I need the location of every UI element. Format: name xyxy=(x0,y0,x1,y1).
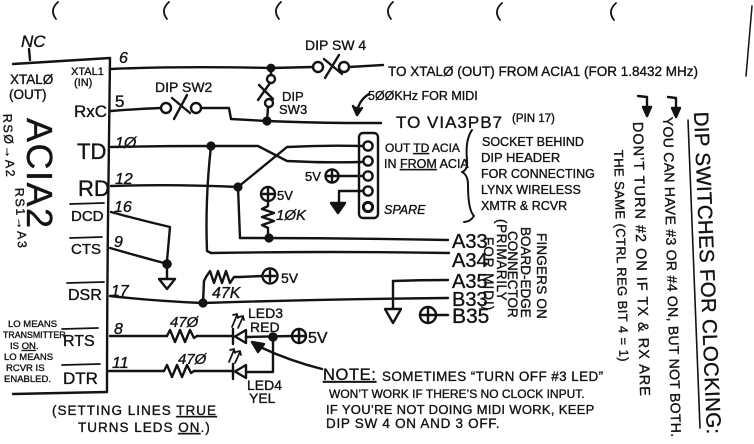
svg-text:RxC: RxC xyxy=(74,102,107,121)
svg-text:RED: RED xyxy=(250,319,280,335)
junction 10K to A33 xyxy=(266,235,273,242)
LED4 YEL xyxy=(232,364,234,379)
svg-text:TO XTALØ (OUT) FROM ACIA1 (FOR: TO XTALØ (OUT) FROM ACIA1 (FOR 1.8432 MH… xyxy=(388,64,698,79)
svg-text:RD: RD xyxy=(78,176,110,201)
svg-text:IF YOU’RE NOT DOING MIDI WORK,: IF YOU’RE NOT DOING MIDI WORK, KEEP xyxy=(326,402,595,417)
wire J1 pin4 to ground arrow xyxy=(339,191,363,204)
wire RD to header pin1 (crosses TD wire) xyxy=(238,146,362,187)
svg-text:XTALØ: XTALØ xyxy=(10,72,54,87)
switch DIP SW4 xyxy=(313,62,323,72)
svg-text:DIP HEADER: DIP HEADER xyxy=(481,150,560,165)
svg-text:TRANSMITTER: TRANSMITTER xyxy=(3,330,66,340)
wire SW3 top stub xyxy=(270,71,272,75)
brace socket note xyxy=(462,130,474,222)
svg-text:LO MEANS: LO MEANS xyxy=(8,319,57,330)
wire pin6 to SW4 xyxy=(111,67,313,69)
svg-text:TD: TD xyxy=(77,139,106,164)
svg-text:5V: 5V xyxy=(308,330,328,347)
svg-text:1Ø: 1Ø xyxy=(115,135,138,152)
svg-text:LYNX WIRELESS: LYNX WIRELESS xyxy=(481,183,581,197)
junction SW3 on pin5 net xyxy=(264,118,271,125)
svg-text:5V: 5V xyxy=(281,270,299,286)
svg-text:6: 6 xyxy=(119,50,128,67)
wire pin16 DCD xyxy=(111,212,170,261)
ground arrow (J1 pin4) xyxy=(331,203,345,213)
junction LED net xyxy=(269,333,276,340)
power +5V for 10K pullup xyxy=(261,187,275,201)
wire SW2 to VIA3PB7 xyxy=(201,108,381,123)
wire DSR up to 47K xyxy=(203,281,204,303)
svg-text:5ØØKHz FOR MIDI: 5ØØKHz FOR MIDI xyxy=(368,89,478,103)
J1 pin 1 xyxy=(363,141,372,150)
wire B35 xyxy=(435,314,448,316)
junction on pin6 wire xyxy=(268,65,274,71)
wire A35 down to ground xyxy=(392,281,394,308)
svg-text:DCD: DCD xyxy=(71,208,104,225)
wire NC stub xyxy=(29,49,30,60)
svg-text:SOCKET BEHIND: SOCKET BEHIND xyxy=(482,135,584,149)
wire pin8 RTS xyxy=(110,335,167,337)
wire pin12 RD xyxy=(111,185,238,187)
wire pin17 DSR to B33 xyxy=(110,296,448,303)
svg-text:DSR: DSR xyxy=(68,287,102,304)
note arrow to LED junction xyxy=(260,347,322,369)
svg-text:DTR: DTR xyxy=(63,369,98,388)
svg-text:RTS: RTS xyxy=(63,333,95,350)
svg-text:TURNS LEDS ON.): TURNS LEDS ON.) xyxy=(78,420,211,435)
svg-text:(OUT): (OUT) xyxy=(9,87,47,102)
svg-text:SOMETIMES “TURN OFF #3 LED”: SOMETIMES “TURN OFF #3 LED” xyxy=(382,369,604,384)
svg-text:IS ON.: IS ON. xyxy=(10,341,39,352)
svg-text:CTS: CTS xyxy=(71,241,101,258)
J1 pin 3 xyxy=(363,171,372,180)
ground arrow (DCD/CTS) xyxy=(159,264,175,289)
junction TD xyxy=(208,143,215,150)
IC U1 ACIA2 (box outline: top, right, bottom edges) xyxy=(13,58,110,394)
svg-text:SPARE: SPARE xyxy=(384,203,426,217)
wire A35 xyxy=(393,280,448,281)
svg-text:WON’T WORK IF THERE’S NO CLOCK: WON’T WORK IF THERE’S NO CLOCK INPUT. xyxy=(329,387,585,401)
wire pin10 TD xyxy=(111,146,211,147)
svg-text:47Ø: 47Ø xyxy=(170,314,200,331)
wire to LED3 xyxy=(197,335,232,337)
wire A34 xyxy=(211,252,449,253)
svg-text:XMTR & RCVR: XMTR & RCVR xyxy=(481,199,567,213)
svg-text:1ØK: 1ØK xyxy=(276,207,307,224)
wire TD to header pin2 xyxy=(211,146,362,162)
svg-text:FINGERS ON: FINGERS ON xyxy=(534,233,549,319)
junction CTS/DCD xyxy=(163,260,170,267)
J1 pin 2 xyxy=(363,156,372,165)
wire pin11 DTR xyxy=(108,370,164,372)
connector J1 DIP header xyxy=(359,133,378,218)
svg-text:(SETTING LINES TRUE: (SETTING LINES TRUE xyxy=(52,403,217,418)
power 5V (47K pullup) xyxy=(240,276,262,277)
svg-text:NC: NC xyxy=(21,32,46,51)
svg-text:5V: 5V xyxy=(277,188,293,203)
svg-text:5V: 5V xyxy=(305,169,321,184)
wire pin9 CTS xyxy=(110,248,164,263)
wire A33 xyxy=(240,238,448,240)
arrow col3 xyxy=(638,96,647,108)
resistor R 470 (DTR) xyxy=(164,365,194,377)
svg-text:FOR CONNECTING: FOR CONNECTING xyxy=(481,167,595,181)
svg-text:FOR MIDI): FOR MIDI) xyxy=(481,237,496,311)
svg-text:11: 11 xyxy=(112,355,129,372)
svg-text:47K: 47K xyxy=(212,285,242,302)
svg-text:DIP SW 4 ON AND 3 OFF.: DIP SW 4 ON AND 3 OFF. xyxy=(326,416,500,431)
junction DSR xyxy=(200,300,207,307)
switch DIP SW2 xyxy=(161,103,171,113)
LED3 RED xyxy=(232,329,234,344)
wire to LED4 xyxy=(194,370,232,372)
wire SW4 to label xyxy=(349,65,383,67)
svg-text:DIP SW2: DIP SW2 xyxy=(155,79,213,95)
power 5V (LEDs) xyxy=(292,329,306,343)
svg-text:TO VIA3PB7: TO VIA3PB7 xyxy=(396,113,503,132)
svg-text:5: 5 xyxy=(115,92,124,111)
J1 pin 4 xyxy=(363,186,372,195)
svg-text:IN FROM ACIA: IN FROM ACIA xyxy=(384,157,469,171)
svg-text:ENABLED.: ENABLED. xyxy=(4,374,51,385)
svg-text:(IN): (IN) xyxy=(74,77,92,89)
wire pin5 to SW2 xyxy=(111,108,161,111)
wire LED3 to 5V xyxy=(246,336,292,337)
svg-text:RCVR IS: RCVR IS xyxy=(6,363,45,374)
wire RD down to A33 xyxy=(238,187,240,238)
switch DIP SW3 (vertical) xyxy=(267,75,275,83)
svg-text:(PIN 17): (PIN 17) xyxy=(512,113,555,125)
junction RD xyxy=(235,184,242,191)
svg-text:OUT TD ACIA: OUT TD ACIA xyxy=(385,141,460,155)
ground arrow (A35) xyxy=(385,309,401,323)
svg-text:47Ø: 47Ø xyxy=(178,351,208,368)
resistor R 10K xyxy=(262,200,274,238)
J1 pin 5 xyxy=(363,202,372,211)
svg-text:SW3: SW3 xyxy=(279,102,307,117)
svg-text:DIP SW 4: DIP SW 4 xyxy=(305,37,366,53)
resistor R 47K xyxy=(204,271,240,283)
svg-text:NOTE:: NOTE: xyxy=(323,366,376,384)
svg-text:YEL: YEL xyxy=(249,390,276,406)
svg-text:LO MEANS: LO MEANS xyxy=(4,352,53,363)
wire TD down to A34 xyxy=(207,146,212,253)
wire LED4 up to junction xyxy=(246,341,273,372)
arrow to pin5 wire xyxy=(357,94,369,112)
power 5V B35 xyxy=(420,307,436,323)
resistor R 470 (RTS) xyxy=(167,330,197,342)
arrow col2 xyxy=(668,97,676,109)
